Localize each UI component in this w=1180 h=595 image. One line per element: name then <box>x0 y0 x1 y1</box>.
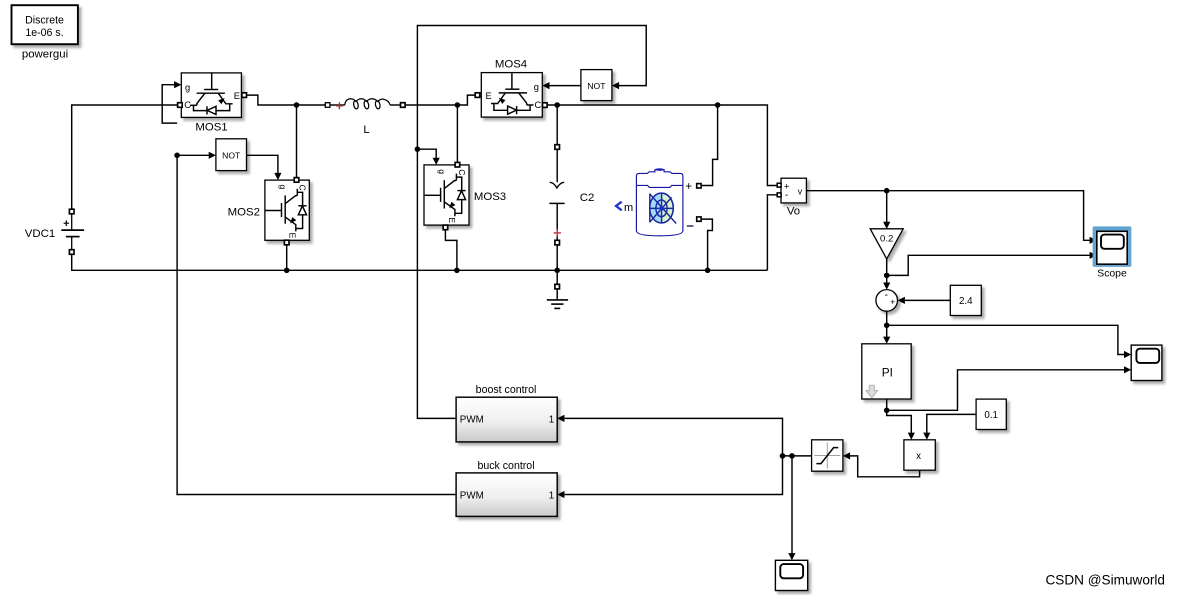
svg-text:C: C <box>535 100 542 110</box>
junction inductor rail node <box>455 102 461 108</box>
svg-text:boost control: boost control <box>476 384 537 396</box>
svg-text:PI: PI <box>882 365 893 379</box>
arrow into PI input <box>883 337 890 344</box>
svg-text:MOS1: MOS1 <box>195 122 227 134</box>
arrow into Scope1 bottom input <box>1124 366 1131 373</box>
pin port L right <box>401 103 406 108</box>
junction battery plus on output rail <box>715 102 721 108</box>
battery minus label <box>687 225 694 227</box>
svg-text:C: C <box>184 100 191 110</box>
wire battery plus staircase to output rail <box>701 105 718 186</box>
pin port MOS2 E <box>284 240 289 245</box>
pin port MOS3 C <box>455 162 460 167</box>
arrow into gain 0.2 <box>883 222 890 229</box>
svg-text:C: C <box>298 185 308 191</box>
wire VDC1 minus to bottom ground rail <box>72 255 768 271</box>
svg-text:g: g <box>278 185 288 190</box>
arrow into NOT2 input <box>612 82 619 89</box>
pin port ground <box>555 284 560 289</box>
wire sum output to PI input <box>886 311 888 337</box>
battery emblem <box>650 193 677 223</box>
wire inductor L right to MOS4 E jog <box>406 95 476 105</box>
wire to buck PWM input <box>564 456 782 495</box>
wire junction down to MOS3 C <box>456 105 458 162</box>
wire VDC1 plus to MOS1 C (top-left rail) <box>72 105 179 209</box>
svg-text:MOS3: MOS3 <box>474 191 506 203</box>
pin port C2 bottom <box>555 240 560 245</box>
svg-text:-: - <box>885 289 889 301</box>
wire gate net boost: boost PWM output up over the top to NOT2 <box>417 26 646 419</box>
arrow into MOS1 g <box>174 81 181 88</box>
pin port MOS2 C <box>294 178 299 183</box>
pin port L left <box>325 103 330 108</box>
junction C2 top on output rail <box>554 102 560 108</box>
wire NOT2 output to MOS4 g <box>549 85 581 87</box>
arrow into Scope1 top input <box>1124 351 1131 358</box>
arrow into Scope bottom input <box>1090 252 1097 259</box>
svg-text:powergui: powergui <box>22 49 68 61</box>
Scope (selected, blue halo) <box>1093 226 1132 267</box>
svg-text:Vo: Vo <box>787 205 800 217</box>
wire branch to Scope bottom input <box>887 255 1090 275</box>
svg-text:+: + <box>685 181 692 193</box>
junction gate net buck <box>174 153 180 159</box>
svg-text:g: g <box>185 83 190 93</box>
transistor MOS2 <box>265 180 309 240</box>
pin port battery plus <box>697 184 701 188</box>
voltage measurement Vo <box>781 178 806 203</box>
logic NOT1 <box>216 139 247 171</box>
svg-text:E: E <box>288 233 298 239</box>
junction C2 bottom on ground rail <box>554 268 560 274</box>
junction Vo output to gain branch <box>884 188 890 194</box>
dc source VDC1 <box>61 214 84 250</box>
junction gate net boost at MOS3 g branch <box>415 146 421 152</box>
svg-text:+: + <box>890 297 895 307</box>
pin port VDC1 plus <box>69 209 74 214</box>
arrow into MOS3 g <box>433 158 440 165</box>
svg-text:E: E <box>234 91 240 101</box>
svg-text:PWM: PWM <box>460 414 484 425</box>
svg-text:CSDN @Simuworld: CSDN @Simuworld <box>1045 573 1165 588</box>
wire gate net buck: buck PWM output up to MOS1/MOS2 gates <box>177 155 456 494</box>
arrow into duty Scope2 <box>788 553 795 560</box>
svg-text:MOS4: MOS4 <box>495 58 527 70</box>
wire MOS4 C to Vo plus corner <box>547 105 777 186</box>
arrow into product left input <box>908 433 915 440</box>
subsystem buck control PWM <box>456 473 557 517</box>
battery m output label <box>616 202 622 211</box>
constant 0.1 <box>976 399 1006 429</box>
junction saturation out A <box>789 453 795 459</box>
svg-text:E: E <box>486 91 492 101</box>
svg-text:-: - <box>785 190 788 201</box>
wire NOT1 output to MOS2 g <box>247 155 278 173</box>
transistor MOS4 (mirrored) <box>481 73 542 118</box>
logic NOT2 <box>581 70 612 101</box>
transistor MOS1 <box>181 73 241 118</box>
junction MOS2 E on ground rail <box>284 268 290 274</box>
wire PI output net <box>886 399 888 410</box>
pin port battery minus <box>697 217 701 221</box>
junction node at MOS1 E rail <box>294 102 300 108</box>
sum block <box>876 289 898 311</box>
pin port VDC1 minus <box>69 250 74 255</box>
svg-text:v: v <box>798 187 803 197</box>
svg-text:C: C <box>457 169 467 175</box>
wire gain output to sum and Scope bottom input <box>886 259 888 283</box>
svg-text:VDC1: VDC1 <box>25 228 55 240</box>
svg-text:Scope: Scope <box>1097 268 1127 279</box>
subsystem boost control PWM <box>456 397 557 442</box>
saturation block <box>812 440 843 471</box>
battery block <box>636 168 683 236</box>
svg-text:E: E <box>447 217 457 223</box>
wire constant 2.4 to sum right input <box>905 299 951 301</box>
inductor L coil <box>330 104 344 106</box>
wire branch to Scope1 bottom input <box>887 370 1125 411</box>
svg-text:NOT: NOT <box>222 151 241 161</box>
svg-text:NOT: NOT <box>587 81 606 91</box>
junction PI output <box>884 408 890 414</box>
svg-text:Discrete: Discrete <box>25 15 64 27</box>
pin port MOS1 E <box>242 93 247 98</box>
wire junction down to C2 top port <box>556 105 558 145</box>
arrow into saturation input <box>843 452 850 459</box>
svg-text:MOS2: MOS2 <box>228 206 260 218</box>
wire constant 0.1 to product right input <box>927 414 976 433</box>
svg-text:1: 1 <box>549 490 554 501</box>
powergui block <box>12 5 78 44</box>
arrow into MOS2 g <box>274 173 281 180</box>
wire down into gain 0.2 <box>886 191 888 222</box>
wire down to duty Scope2 <box>791 456 793 554</box>
constant 2.4 <box>950 285 981 315</box>
wire MOS3 E to ground rail <box>445 230 457 270</box>
wire to boost PWM input <box>564 418 782 456</box>
svg-text:m: m <box>624 202 633 214</box>
svg-text:0.1: 0.1 <box>984 410 998 421</box>
svg-text:0.2: 0.2 <box>880 233 893 244</box>
arrow into sum top <box>883 283 890 290</box>
wire C2 bottom to ground rail <box>556 245 558 284</box>
arrow into sum right <box>898 297 905 304</box>
wire Vo output to Scope top input <box>806 191 1090 241</box>
svg-text:C2: C2 <box>580 192 595 204</box>
arrow into product right input <box>923 433 930 440</box>
Scope1 block <box>1131 345 1162 380</box>
wire PI output to product left input <box>887 410 912 433</box>
svg-text:g: g <box>534 82 539 92</box>
wire saturation output rail <box>783 455 812 457</box>
polarity mark plus on L <box>336 102 343 109</box>
arrow into NOT1 input <box>209 152 216 159</box>
wire product output to saturation input <box>850 456 920 477</box>
wire boost net to MOS3 g <box>417 149 436 158</box>
arrow into boost PWM input <box>557 415 564 422</box>
Scope2 block (duty) <box>775 560 807 590</box>
pin port C2 top <box>555 145 560 150</box>
pin port MOS1 C <box>178 103 183 108</box>
wire battery minus staircase to ground rail <box>701 219 712 270</box>
arrow into buck PWM input <box>557 491 564 498</box>
pin port MOS4 E <box>475 93 480 98</box>
wire branch to Scope1 top input <box>887 325 1125 354</box>
svg-text:L: L <box>363 124 369 136</box>
svg-text:1: 1 <box>549 414 554 425</box>
wire ground rail up to Vo minus <box>767 195 777 270</box>
wire MOS2 E to ground rail <box>286 245 288 270</box>
junction below gain <box>884 273 890 279</box>
transistor MOS3 <box>424 165 469 225</box>
PI controller block <box>862 344 911 399</box>
svg-text:g: g <box>437 169 447 174</box>
wire MOS1 g from gate net <box>162 85 177 123</box>
svg-text:1e-06 s.: 1e-06 s. <box>25 27 63 39</box>
pin port Vo plus <box>777 183 781 187</box>
gain 0.2 triangle <box>870 229 903 259</box>
arrow into MOS4 g <box>542 82 549 89</box>
pin port MOS4 C <box>543 103 548 108</box>
wire junction down to MOS2 C <box>296 105 298 177</box>
junction battery minus on ground rail <box>705 268 711 274</box>
pin port MOS3 E <box>443 225 448 230</box>
svg-text:2.4: 2.4 <box>959 296 973 307</box>
svg-text:buck control: buck control <box>477 460 534 472</box>
capacitor C2 <box>549 149 564 240</box>
polarity mark plus on C2 <box>554 229 561 236</box>
svg-text:PWM: PWM <box>460 490 484 501</box>
pin port Vo minus <box>777 193 781 197</box>
product block x <box>904 440 935 470</box>
junction MOS3 E on ground rail <box>454 268 460 274</box>
junction sum output to Scope1 branch <box>884 323 890 329</box>
junction saturation out B <box>780 453 786 459</box>
ground symbol <box>547 289 568 308</box>
wire MOS1 E to inductor L left <box>247 95 325 105</box>
arrow into Scope top input <box>1090 237 1097 244</box>
svg-text:x: x <box>916 451 921 462</box>
